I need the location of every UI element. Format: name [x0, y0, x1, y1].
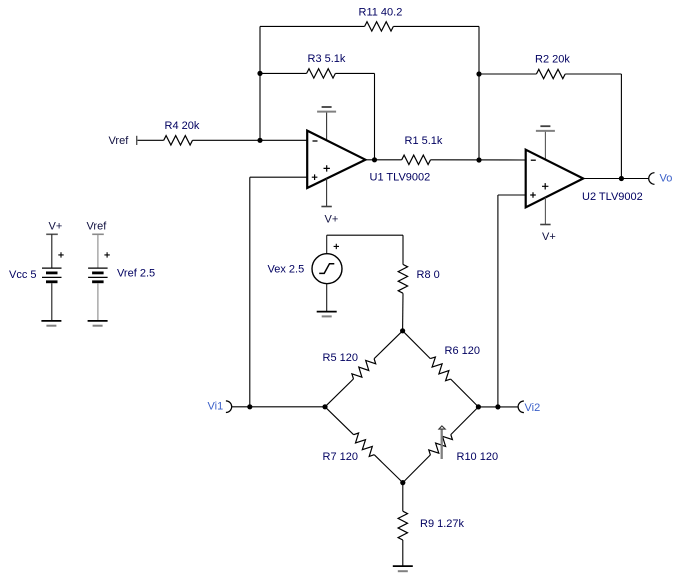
svg-text:R7 120: R7 120 — [323, 451, 358, 463]
svg-text:U1 TLV9002: U1 TLV9002 — [370, 172, 431, 184]
source Vex 2.5 — [326, 235, 328, 254]
svg-text:Vref 2.5: Vref 2.5 — [117, 267, 155, 279]
node Vi2 junction — [495, 404, 500, 409]
op-amp U2 — [526, 150, 584, 208]
svg-text:Vo: Vo — [660, 173, 673, 185]
node at U1 inverting input — [257, 138, 262, 143]
svg-text:U2 TLV9002: U2 TLV9002 — [582, 191, 643, 203]
wire U1 noninverting to Vi1 — [250, 176, 307, 178]
svg-text:R6 120: R6 120 — [445, 345, 480, 357]
resistor R10 (variable) — [403, 455, 431, 483]
resistor R1 — [365, 159, 401, 161]
node U2 output — [619, 176, 624, 181]
node Vi1 junction — [247, 404, 252, 409]
wire R3 to U1 output — [374, 73, 376, 159]
wire left vertical x260 — [259, 26, 261, 140]
ground under Vcc — [41, 320, 61, 322]
ground under Vex — [326, 284, 328, 312]
node R2 tap — [476, 71, 481, 76]
svg-text:R5 120: R5 120 — [323, 352, 358, 364]
node bridge top — [400, 328, 405, 333]
resistor R7 — [325, 407, 354, 435]
wire R2 to output node — [620, 74, 622, 179]
port Vi2 — [478, 406, 518, 408]
svg-text:Vcc 5: Vcc 5 — [9, 269, 37, 281]
ground under Vref battery — [88, 320, 108, 322]
resistor R2 — [479, 73, 536, 75]
ground under R9 — [393, 565, 413, 567]
wire Vex to R8 — [327, 234, 403, 236]
resistor R8 — [398, 264, 407, 293]
node U2 inverting input — [476, 157, 481, 162]
node bridge left — [322, 404, 327, 409]
svg-text:R10 120: R10 120 — [457, 451, 499, 463]
svg-text:V+: V+ — [542, 231, 556, 243]
wire U2 noninverting to Vi2 — [498, 194, 526, 196]
svg-text:Vi1: Vi1 — [208, 401, 224, 413]
battery Vref 2.5 — [88, 267, 108, 269]
svg-text:R8 0: R8 0 — [417, 269, 440, 281]
resistor R5 — [325, 379, 354, 407]
V+ pin below U1 — [326, 178, 328, 206]
resistor R4 — [138, 139, 164, 141]
svg-text:Vi2: Vi2 — [525, 402, 541, 414]
V+ pin below U2 — [544, 198, 546, 225]
node bridge right — [476, 404, 481, 409]
wire U2 output — [583, 178, 649, 180]
ground above U2 — [544, 131, 546, 160]
battery Vcc 5 — [42, 267, 62, 269]
resistor R9 — [402, 483, 404, 512]
ground above U1 — [326, 112, 328, 141]
node bridge bottom — [400, 480, 405, 485]
op-amp U1 — [307, 131, 365, 188]
svg-text:R9 1.27k: R9 1.27k — [420, 518, 465, 530]
wire right vertical x479 — [478, 26, 480, 160]
port Vo — [649, 173, 655, 185]
svg-text:Vref: Vref — [87, 220, 108, 232]
svg-text:R1 5.1k: R1 5.1k — [405, 135, 443, 147]
node at R3 tap — [257, 71, 262, 76]
wire top feedback horizontal — [260, 25, 365, 27]
svg-text:R2 20k: R2 20k — [535, 53, 570, 65]
resistor R6 — [403, 331, 431, 359]
resistor R3 — [260, 72, 307, 74]
svg-text:R3 5.1k: R3 5.1k — [308, 53, 346, 65]
svg-text:Vref: Vref — [109, 135, 130, 147]
svg-text:R11 40.2: R11 40.2 — [359, 7, 403, 19]
svg-text:V+: V+ — [49, 220, 63, 232]
svg-text:R4 20k: R4 20k — [165, 120, 200, 132]
svg-text:V+: V+ — [325, 214, 339, 226]
svg-text:Vex 2.5: Vex 2.5 — [268, 263, 305, 275]
resistor R11 — [365, 22, 394, 31]
node U1 output — [372, 157, 377, 162]
